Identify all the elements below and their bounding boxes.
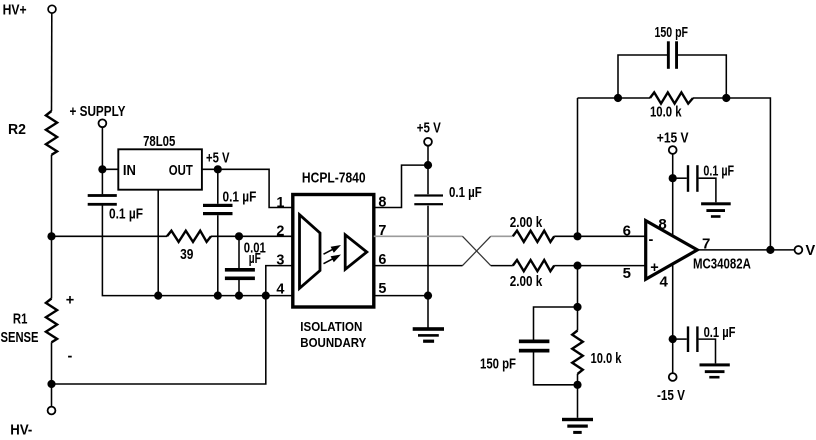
- wire upper 2.00k to opamp: [554, 235, 646, 237]
- wire -15 decap to ground: [699, 339, 716, 363]
- wire lower after crossover: [491, 265, 513, 267]
- resistor 2.00k lower: [513, 260, 554, 271]
- wire 78L05 gnd: [157, 190, 159, 296]
- resistor R1: [46, 299, 57, 343]
- node junction +15 decap: [669, 174, 677, 182]
- node junction R1 bottom / return wire: [47, 380, 55, 388]
- node junction output: [766, 246, 774, 254]
- svg-text:0.1 µF: 0.1 µF: [703, 164, 734, 180]
- node junction 150pF right: [722, 94, 730, 102]
- node junction rail / 0.01uF: [235, 292, 243, 300]
- wire 0.01uF to rail: [238, 280, 240, 296]
- wire cap down to pin5 node and ground: [427, 206, 429, 328]
- node junction rail / 78L05 gnd: [154, 292, 162, 300]
- svg-text:2.00 k: 2.00 k: [510, 215, 543, 231]
- svg-text:IN: IN: [123, 163, 136, 179]
- svg-text:0.1 µF: 0.1 µF: [109, 206, 143, 222]
- resistor R2: [46, 111, 57, 155]
- node junction 150pF/10k top: [573, 303, 581, 311]
- svg-text:3: 3: [276, 252, 284, 268]
- svg-text:10.0 k: 10.0 k: [650, 104, 682, 120]
- wire pin7 gray: [374, 235, 463, 237]
- wire bottom network vertical upper: [577, 266, 579, 331]
- svg-text:HV-: HV-: [10, 422, 32, 438]
- capacitor 0.1uF supply: [88, 194, 117, 206]
- node junction +5V top: [424, 161, 432, 169]
- svg-text:+5 V: +5 V: [417, 120, 441, 136]
- wire feedback vertical left: [577, 98, 579, 236]
- node junction inverting input: [573, 232, 581, 240]
- svg-text:V: V: [806, 243, 816, 259]
- svg-text:2.00 k: 2.00 k: [510, 274, 543, 290]
- capacitor 150pF feedback: [667, 41, 678, 69]
- wire OUT to +5V rail and pin1: [202, 169, 293, 207]
- node junction rail / cap: [214, 292, 222, 300]
- ground bottom network: [562, 418, 593, 434]
- svg-text:ISOLATION: ISOLATION: [300, 319, 362, 334]
- wire 10k bottom to ground: [577, 374, 579, 418]
- terminal HV+: [48, 5, 56, 13]
- wire output: [697, 249, 794, 251]
- wire +5V node to cap: [217, 169, 219, 204]
- svg-text:BOUNDARY: BOUNDARY: [300, 335, 366, 350]
- amplifier shape inside U1: [345, 235, 367, 269]
- node junction 150pF/10k bottom: [573, 381, 581, 389]
- capacitor 0.1uF +15: [687, 165, 699, 192]
- node junction rail / pin3 / return: [262, 292, 270, 300]
- svg-text:OUT: OUT: [169, 163, 193, 179]
- opto arrow 1: [324, 245, 342, 254]
- wire pin8 to +5V: [374, 165, 428, 207]
- svg-text:4: 4: [276, 282, 284, 298]
- svg-text:8: 8: [658, 216, 666, 233]
- svg-text:6: 6: [623, 222, 631, 239]
- node junction supply / IN: [98, 165, 106, 173]
- wire cap to rail: [217, 215, 219, 295]
- terminal -15V: [669, 373, 677, 381]
- opto arrow 2: [324, 255, 342, 264]
- svg-text:5: 5: [623, 265, 631, 282]
- wire 39 right to pin2: [211, 235, 293, 237]
- terminal + SUPPLY: [99, 119, 107, 127]
- wire 150pF branch right: [678, 55, 727, 98]
- node junction pin5 / gnd: [424, 292, 432, 300]
- wire 150pF bottom branch top: [534, 307, 578, 340]
- svg-text:+: +: [66, 292, 74, 308]
- svg-text:HV+: HV+: [3, 2, 27, 18]
- svg-text:+5 V: +5 V: [206, 151, 230, 167]
- wire +15V down through opamp to -15V: [672, 154, 674, 373]
- resistor 10.0k feedback: [650, 92, 693, 103]
- svg-text:1: 1: [276, 195, 284, 211]
- wire R1 to HV-: [51, 342, 53, 407]
- svg-text:+ SUPPLY: + SUPPLY: [70, 104, 126, 120]
- wire crossover diagonal b: [463, 236, 491, 265]
- node junction pin2 / 0.01uF: [235, 232, 243, 240]
- svg-text:4: 4: [660, 274, 669, 291]
- capacitor 0.1uF -15: [687, 326, 699, 352]
- svg-text:-: -: [649, 232, 654, 248]
- op-amp U1 HCPL-7840 body: [293, 195, 374, 308]
- wire crossover diagonal a: [463, 236, 491, 265]
- wire lower 2.00k to opamp: [554, 265, 646, 267]
- wire 39 left: [52, 235, 168, 237]
- wire supply down to cap: [101, 127, 103, 194]
- svg-text:0.1 µF: 0.1 µF: [223, 190, 257, 206]
- wire return bottom run to pin4 node: [52, 296, 266, 384]
- wire R2 to R1: [51, 155, 53, 299]
- wire +15 decap to ground: [699, 178, 716, 202]
- wire feedback top rail left segment: [578, 97, 651, 99]
- wire to regulator IN: [102, 168, 118, 170]
- wire upper after crossover gray: [491, 235, 513, 237]
- svg-text:R2: R2: [8, 122, 26, 138]
- wire feedback top rail right segment: [693, 98, 770, 250]
- svg-text:39: 39: [180, 247, 193, 263]
- wire +15 decap: [673, 177, 687, 179]
- svg-text:2: 2: [276, 224, 284, 240]
- svg-text:0.1 µF: 0.1 µF: [449, 185, 482, 201]
- svg-text:SENSE: SENSE: [1, 330, 39, 346]
- svg-text:150 pF: 150 pF: [655, 25, 689, 41]
- svg-text:150 pF: 150 pF: [480, 356, 516, 372]
- wire pin6 black: [374, 265, 463, 267]
- svg-text:MC34082A: MC34082A: [693, 257, 751, 273]
- wire pin5: [374, 295, 428, 297]
- ground hcpl: [413, 327, 444, 343]
- resistor 2.00k upper: [513, 231, 554, 242]
- wire cap bottom to ground rail: [102, 206, 292, 296]
- resistor 10.0k bottom: [572, 331, 583, 374]
- regulator U 78L05: [118, 149, 202, 189]
- svg-text:-: -: [68, 348, 73, 364]
- svg-text:HCPL-7840: HCPL-7840: [302, 170, 366, 187]
- terminal V out: [795, 246, 803, 254]
- svg-text:+: +: [650, 260, 658, 276]
- wire +5V terminal down: [427, 146, 429, 195]
- ground +15 decap: [701, 202, 731, 218]
- op-amp U2 triangle: [646, 221, 698, 280]
- svg-text:-15 V: -15 V: [657, 388, 685, 404]
- node junction 150pF left: [614, 94, 622, 102]
- svg-text:+15 V: +15 V: [657, 131, 689, 147]
- terminal +5V top: [424, 138, 432, 146]
- svg-text:R1: R1: [13, 311, 28, 327]
- wire 150pF branch left: [618, 55, 667, 98]
- wire 150pF bottom branch bottom: [534, 353, 578, 385]
- resistor 39: [167, 231, 211, 242]
- terminal +15V: [669, 146, 677, 154]
- svg-text:78L05: 78L05: [143, 134, 175, 150]
- wire to 0.01uF: [238, 236, 240, 268]
- svg-text:10.0 k: 10.0 k: [591, 351, 623, 367]
- capacitor 150pF bottom: [519, 340, 550, 353]
- capacitor 0.1uF hcpl: [414, 194, 443, 205]
- capacitor 0.1uF on +5V: [203, 204, 233, 215]
- ground -15 decap: [700, 363, 730, 378]
- node junction -15 decap: [669, 335, 677, 343]
- node junction left rail / 39 branch: [47, 232, 55, 240]
- modulator shape inside U1: [300, 215, 321, 289]
- node junction non-inverting input: [573, 262, 581, 270]
- terminal HV-: [48, 407, 56, 415]
- svg-text:µF: µF: [249, 251, 261, 267]
- wire HV+ to R2: [51, 13, 53, 111]
- svg-text:5: 5: [378, 281, 386, 297]
- wire -15 decap: [673, 338, 687, 340]
- capacitor 0.01uF: [225, 268, 255, 280]
- node junction +5V out: [214, 165, 222, 173]
- wire pin3 branch: [266, 266, 293, 296]
